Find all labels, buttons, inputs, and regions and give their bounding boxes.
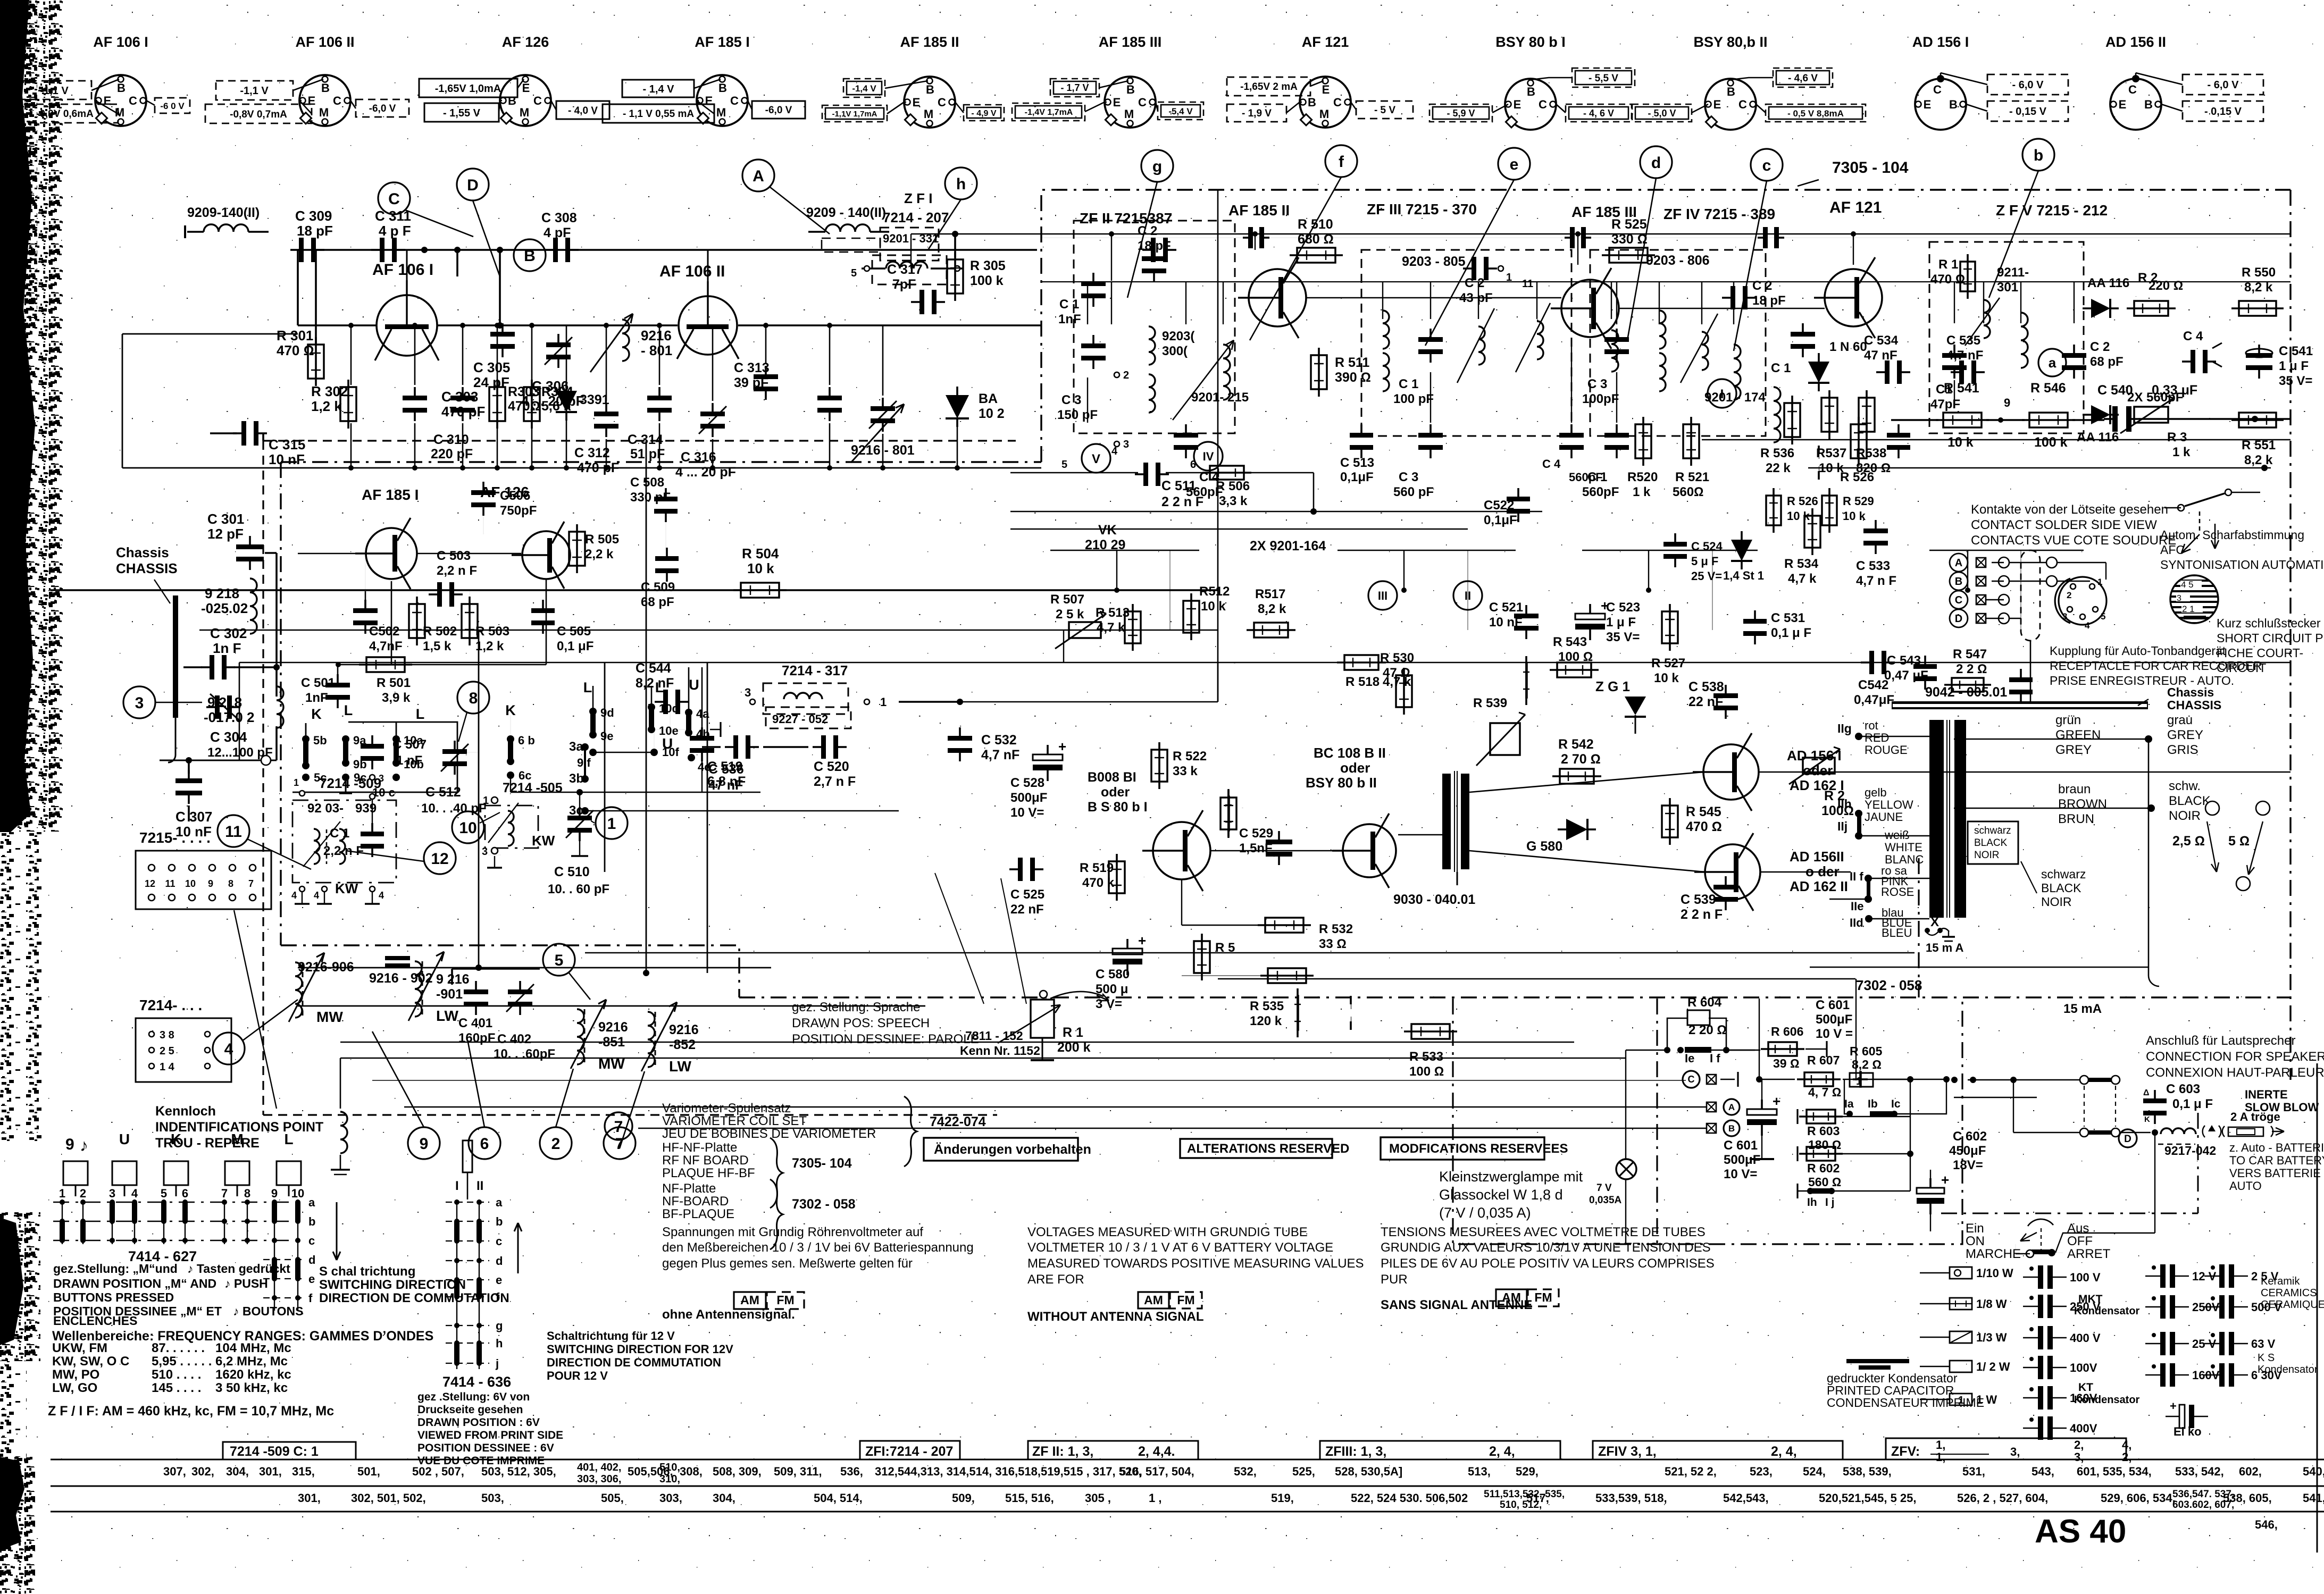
svg-text:63 V: 63 V [2251,1337,2276,1350]
svg-text:C 1: C 1 [1587,470,1607,484]
svg-text:b: b [2034,147,2043,164]
svg-text:R 519: R 519 [1242,808,1243,809]
svg-text:-1,65V 1,0mA: -1,65V 1,0mA [435,83,501,95]
svg-text:503,: 503, [481,1491,504,1505]
svg-text:R 1: R 1 [1938,257,1958,272]
svg-text:10: 10 [291,1187,304,1200]
svg-text:1620 kHz, kc: 1620 kHz, kc [215,1368,291,1382]
svg-text:400 V: 400 V [2070,1331,2101,1345]
svg-text:9203 - 805: 9203 - 805 [1402,254,1466,269]
svg-text:SHORT CIRCUIT PLUG: SHORT CIRCUIT PLUG [2217,631,2324,645]
svg-text:- 1,9 V: - 1,9 V [1242,108,1272,119]
svg-text:1 k: 1 k [1633,485,1651,499]
svg-text:4: 4 [1111,446,1118,457]
svg-text:AD 156 II: AD 156 II [2105,34,2166,50]
svg-text:Ein: Ein [1966,1221,1984,1236]
svg-text:C 521: C 521 [1489,600,1523,615]
svg-text:R 606: R 606 [1771,1025,1803,1038]
svg-text:C 524: C 524 [1691,540,1723,553]
svg-text:33 Ω: 33 Ω [1319,937,1347,951]
svg-text:CONNEXION HAUT-PARLEUR: CONNEXION HAUT-PARLEUR [2146,1066,2324,1080]
svg-text:39 Ω: 39 Ω [1773,1056,1800,1070]
svg-text:NOIR: NOIR [1974,850,2000,861]
svg-text:L: L [416,706,425,722]
svg-text:M: M [924,107,933,121]
svg-text:C 539: C 539 [1681,892,1716,907]
svg-text:g: g [496,1319,503,1332]
svg-text:2 1: 2 1 [2182,604,2195,614]
svg-text:I j: I j [1825,1196,1835,1209]
svg-text:-1,1 V: -1,1 V [40,85,69,97]
svg-text:S chal trichtung: S chal trichtung [319,1264,415,1279]
svg-text:7215- . . . .: 7215- . . . . [139,829,211,846]
svg-text:7302 - 058: 7302 - 058 [792,1197,856,1212]
svg-text:ENCLENCHES: ENCLENCHES [53,1314,137,1328]
svg-text:MW: MW [316,1009,343,1025]
svg-text:C: C [730,94,739,107]
svg-text:220 pF: 220 pF [431,447,473,462]
svg-text:25 V=: 25 V= [1691,569,1722,583]
svg-text:2 70 Ω: 2 70 Ω [1561,752,1601,767]
svg-text:120 k: 120 k [1250,1014,1282,1028]
svg-text:3 50 kHz, kc: 3 50 kHz, kc [215,1381,288,1395]
svg-text:2,5 Ω: 2,5 Ω [2172,834,2205,849]
svg-text:Glassockel W 1,8 d: Glassockel W 1,8 d [1439,1187,1563,1203]
svg-text:87. . . . . .: 87. . . . . . [152,1341,205,1355]
svg-text:C 603: C 603 [2166,1082,2200,1096]
svg-text:KW: KW [532,833,555,849]
svg-text:R 541: R 541 [1944,381,1979,396]
svg-text:AS 40: AS 40 [2035,1513,2126,1550]
svg-text:C 305: C 305 [473,359,510,375]
svg-text:+: + [2170,1399,2177,1413]
svg-text:grau: grau [2167,713,2193,727]
svg-text:POSITION DESSINEE: PAROLE: POSITION DESSINEE: PAROLE [792,1032,979,1046]
svg-text:7: 7 [614,1118,623,1136]
svg-text:Schaltrichtung für 12 V: Schaltrichtung für 12 V [547,1329,675,1343]
svg-text:- 6,0 V: - 6,0 V [2012,79,2044,91]
svg-text:GRUNDIG AUX VALEURS 10/3/1V: GRUNDIG AUX VALEURS 10/3/1V A UNE TENSIO… [1381,1240,1711,1255]
svg-text:M: M [319,106,329,119]
svg-text:z. Auto - BATTERIE: z. Auto - BATTERIE [2229,1141,2324,1154]
svg-text:I f: I f [1710,1052,1720,1065]
svg-text:C 511: C 511 [1161,479,1196,493]
svg-text:b: b [496,1215,503,1228]
svg-text:602,: 602, [2239,1465,2262,1478]
svg-text:501,: 501, [357,1465,380,1478]
svg-text:3,: 3, [2010,1445,2020,1458]
svg-text:9209 - 140(II): 9209 - 140(II) [806,205,886,220]
svg-text:h: h [496,1337,503,1350]
svg-text:INERTE: INERTE [2245,1088,2288,1101]
svg-text:ARRET: ARRET [2067,1247,2111,1261]
svg-text:4: 4 [314,890,319,901]
svg-text:526, 2 , 527, 604,: 526, 2 , 527, 604, [1957,1491,2048,1505]
svg-text:El ko: El ko [2173,1425,2202,1438]
svg-text:2: 2 [80,1187,86,1200]
svg-text:VERS BATTERIE: VERS BATTERIE [2229,1167,2321,1180]
svg-text:9216: 9216 [641,328,672,343]
svg-text:0,1μF: 0,1μF [1340,470,1374,484]
svg-text:R 525: R 525 [1611,217,1647,232]
svg-text:h: h [956,175,966,193]
svg-text:C 310: C 310 [433,432,469,447]
svg-text:B: B [718,81,727,95]
svg-text:AF 185 I: AF 185 I [695,34,750,50]
svg-text:10. . 60 pF: 10. . 60 pF [548,882,609,896]
svg-text:Z F V 7215 - 212: Z F V 7215 - 212 [1996,202,2108,219]
svg-text:7: 7 [248,878,254,889]
svg-text:ALTERATIONS RESERVED: ALTERATIONS RESERVED [1187,1142,1349,1156]
svg-text:220 Ω: 220 Ω [2149,279,2183,293]
svg-text:Δ: Δ [2143,1088,2150,1097]
svg-text:AF 121: AF 121 [1302,34,1349,50]
svg-text:7214 - 207: 7214 - 207 [883,209,949,225]
svg-text:PUR: PUR [1381,1272,1408,1287]
svg-text:R 539: R 539 [1473,696,1507,710]
svg-text:VIEWED FROM PRINT SIDE: VIEWED FROM PRINT SIDE [417,1429,563,1441]
svg-text:1,2 k: 1,2 k [475,639,504,653]
svg-text:ohne Antennensignal.: ohne Antennensignal. [662,1307,795,1322]
svg-text:C 531: C 531 [1771,611,1805,625]
svg-text:68 pF: 68 pF [2090,355,2124,369]
svg-text:7414 - 636: 7414 - 636 [442,1374,511,1390]
svg-text:528, 530,5A]: 528, 530,5A] [1335,1465,1402,1478]
svg-text:MODFICATIONS RESERVEES: MODFICATIONS RESERVEES [1389,1142,1568,1156]
svg-text:8: 8 [228,878,233,889]
svg-text:1: 1 [607,815,616,833]
svg-text:C 302: C 302 [210,625,247,641]
svg-text:9: 9 [271,1187,278,1200]
svg-text:450μF: 450μF [1949,1144,1986,1158]
svg-text:1: 1 [880,695,887,709]
svg-text:Ib: Ib [1868,1098,1878,1110]
svg-text:RF NF BOARD: RF NF BOARD [662,1153,749,1168]
svg-text:560Ω: 560Ω [1673,485,1703,499]
svg-text:R 534: R 534 [1784,557,1819,571]
svg-text:5: 5 [851,267,857,279]
svg-text:II: II [476,1179,483,1193]
svg-text:R 533: R 533 [1409,1050,1443,1064]
svg-text:0,035A: 0,035A [1589,1195,1622,1206]
svg-text:E: E [1924,98,1932,111]
svg-text:4 5: 4 5 [2181,580,2194,590]
svg-text:schwarz: schwarz [1974,825,2011,836]
svg-text:POUR 12 V: POUR 12 V [547,1369,608,1382]
svg-text:f: f [1339,153,1344,171]
svg-text:1,: 1, [1936,1450,1945,1464]
svg-text:301,: 301, [259,1465,282,1478]
svg-text:C 601: C 601 [1816,998,1850,1012]
svg-text:2,7 n F: 2,7 n F [814,774,856,789]
svg-text:C 2: C 2 [1465,276,1484,290]
svg-text:533,539, 518,: 533,539, 518, [1595,1491,1667,1505]
svg-text:ROUGE: ROUGE [1865,743,1908,757]
svg-text:4: 4 [2085,620,2090,631]
svg-text:3,9 k: 3,9 k [382,691,411,705]
svg-text:519,: 519, [1271,1491,1294,1505]
svg-text:GREY: GREY [2167,728,2203,742]
svg-text:2,2 n F: 2,2 n F [323,844,364,858]
svg-text:Keramik: Keramik [2261,1276,2300,1287]
svg-text:2,: 2, [2074,1438,2084,1452]
svg-text:e: e [496,1273,502,1287]
svg-text:Anschluß für Lautsprecher: Anschluß für Lautsprecher [2146,1034,2295,1048]
svg-text:2: 2 [551,1135,561,1153]
svg-text:4 p F: 4 p F [379,223,411,239]
svg-text:Autom. Scharfabstimmung: Autom. Scharfabstimmung [2160,528,2304,542]
svg-text:AA 116: AA 116 [2087,276,2129,290]
svg-text:1 N 60: 1 N 60 [1808,393,1810,394]
svg-text:II: II [1465,589,1471,602]
svg-text:1/10 W: 1/10 W [1976,1266,2013,1280]
svg-text:2 2 n F: 2 2 n F [1161,494,1203,509]
svg-text:4,: 4, [2122,1438,2131,1452]
svg-text:Kurz schlußstecker: Kurz schlußstecker [2217,616,2321,630]
svg-text:18 pF: 18 pF [297,223,333,239]
svg-text:oder: oder [1340,760,1370,776]
svg-text:3: 3 [1123,439,1129,450]
svg-text:AF 121: AF 121 [1829,199,1882,216]
svg-text:AD 156 I: AD 156 I [1787,748,1842,764]
svg-text:7: 7 [221,1187,228,1200]
svg-text:8,2 k: 8,2 k [2244,453,2273,467]
svg-text:9201- 215: 9201- 215 [1191,390,1249,405]
svg-text:302,: 302, [191,1465,214,1478]
svg-text:C 513: C 513 [1340,456,1374,470]
svg-text:303, 306,: 303, 306, [577,1473,621,1485]
svg-text:8: 8 [469,690,478,707]
svg-text:DRAWN POSITION „M“ AND: DRAWN POSITION „M“ AND [53,1277,216,1290]
svg-text:312,544,313, 314,514, 316,518,: 312,544,313, 314,514, 316,518,519,515 , … [875,1465,1142,1478]
svg-text:Ia: Ia [1844,1098,1854,1110]
svg-text:300(: 300( [1162,344,1188,358]
svg-text:10: 10 [185,878,196,889]
svg-text:BLACK: BLACK [1974,837,2008,849]
svg-text:R 301: R 301 [277,328,313,343]
svg-text:C 533: C 533 [1856,559,1890,573]
svg-text:E: E [1514,98,1522,111]
svg-text:500μF: 500μF [1724,1153,1760,1167]
svg-text:E: E [1113,96,1121,109]
svg-text:7214 - 317: 7214 - 317 [782,662,848,678]
svg-text:8,2 Ω: 8,2 Ω [1852,1058,1882,1071]
svg-text:2, 4,: 2, 4, [1771,1444,1797,1459]
svg-text:C 2: C 2 [1138,224,1157,238]
svg-text:6,2 MHz, Mc: 6,2 MHz, Mc [215,1354,288,1369]
svg-text:C 2: C 2 [2090,340,2110,354]
svg-text:DRAWN POS: SPEECH: DRAWN POS: SPEECH [792,1016,930,1030]
svg-text:11: 11 [1522,278,1533,290]
svg-text:9216 - 902: 9216 - 902 [369,971,433,986]
svg-text:7pF: 7pF [892,277,916,292]
svg-text:R 530: R 530 [1380,651,1414,665]
svg-text:302, 501, 502,: 302, 501, 502, [351,1491,426,1505]
svg-text:500μF: 500μF [1816,1012,1852,1027]
svg-text:470 Ω: 470 Ω [277,342,314,358]
svg-text:TENSIONS MESUREES AVEC VOLT: TENSIONS MESUREES AVEC VOLTMETRE DE TUBE… [1381,1225,1706,1239]
svg-text:9: 9 [208,878,213,889]
svg-text:R 3: R 3 [2167,430,2187,444]
svg-text:C 540: C 540 [2097,383,2133,398]
svg-text:9042 - 005.01: 9042 - 005.01 [1925,685,2007,700]
svg-text:C 3: C 3 [1399,470,1418,484]
svg-text:- 5 V: - 5 V [1374,105,1395,116]
svg-text:b: b [308,1215,315,1228]
svg-text:100 k: 100 k [970,273,1004,288]
svg-text:2 2 Ω: 2 2 Ω [1956,662,1987,676]
svg-text:R 506: R 506 [1216,479,1250,493]
svg-text:C: C [1333,96,1342,109]
svg-text:VOLTAGES MEASURED WITH GRUN: VOLTAGES MEASURED WITH GRUNDIG TUBE [1027,1225,1308,1239]
svg-text:C 503: C 503 [437,549,471,563]
svg-text:C 580: C 580 [1096,967,1130,981]
svg-text:PILES DE 6V AU POLE POSI: PILES DE 6V AU POLE POSITIV VA LEURS COM… [1381,1256,1715,1271]
svg-text:B: B [1728,1123,1735,1134]
svg-text:12: 12 [145,878,155,889]
svg-text:f: f [308,1291,313,1305]
svg-text:546,: 546, [2255,1518,2278,1531]
svg-text:FM: FM [776,1293,794,1307]
svg-text:R 1: R 1 [1063,1025,1083,1040]
svg-text:+: + [1941,1172,1949,1188]
svg-text:CONTACTS VUE COTE SOUDURE: CONTACTS VUE COTE SOUDURE [1971,533,2176,548]
svg-text:R 605: R 605 [1850,1044,1883,1058]
svg-text:- 4,6 V: - 4,6 V [1788,73,1818,84]
svg-text:A: A [1955,557,1962,569]
svg-text:AF 106 II: AF 106 II [295,34,354,50]
svg-text:C 525: C 525 [1010,887,1044,902]
svg-text:560pF: 560pF [1582,485,1619,499]
svg-text:-0,8V 0,7mA: -0,8V 0,7mA [230,109,287,120]
svg-text:Kontakte von der Lötseite gese: Kontakte von der Lötseite gesehen [1971,502,2168,517]
svg-text:R 527: R 527 [1651,656,1685,670]
svg-text:C 402: C 402 [497,1032,531,1046]
svg-text:6: 6 [480,1135,489,1153]
svg-text:C: C [129,94,137,107]
svg-text:B: B [1949,98,1958,111]
svg-text:C: C [333,94,341,107]
svg-text:7214 -505: 7214 -505 [503,781,563,795]
svg-text:100 Ω: 100 Ω [1409,1064,1444,1079]
svg-text:B S 80 b I: B S 80 b I [1088,800,1148,815]
svg-text:FM: FM [1534,1290,1552,1304]
svg-text:5: 5 [1061,459,1067,471]
svg-text:2 20 Ω: 2 20 Ω [1688,1023,1727,1037]
svg-text:C 317: C 317 [887,262,923,277]
svg-text:R 542: R 542 [1558,737,1594,752]
svg-text:d: d [308,1253,315,1266]
svg-text:4,7 nF: 4,7 nF [981,748,1019,762]
svg-text:9 218: 9 218 [205,585,239,601]
svg-text:MKT: MKT [2078,1293,2103,1305]
svg-text:524,: 524, [1803,1465,1826,1478]
svg-text:1,: 1, [1936,1438,1945,1452]
svg-text:AUTO: AUTO [2229,1179,2262,1193]
svg-text:508, 309,: 508, 309, [713,1465,762,1478]
svg-text:II f: II f [1850,870,1863,883]
svg-text:7 V: 7 V [1596,1182,1612,1194]
svg-text:R 550: R 550 [2242,265,2276,280]
svg-text:c: c [308,1234,315,1247]
svg-text:10 k: 10 k [747,560,774,576]
svg-text:e: e [1510,156,1519,173]
svg-text:B: B [1727,85,1735,98]
svg-text:1nF: 1nF [305,691,328,705]
svg-text:BUTTONS PRESSED: BUTTONS PRESSED [53,1290,174,1304]
svg-text:305 ,: 305 , [1085,1491,1111,1505]
svg-text:10. . .60pF: 10. . .60pF [494,1047,555,1061]
svg-text:R 518: R 518 [1234,663,1235,664]
svg-text:532,: 532, [1234,1465,1257,1478]
svg-text:4,7 k: 4,7 k [1788,572,1817,586]
svg-text:R 545: R 545 [1686,804,1721,819]
svg-text:C 508: C 508 [630,475,664,490]
svg-text:CHASSIS: CHASSIS [116,560,178,576]
svg-text:AF 106 I: AF 106 I [93,34,148,50]
svg-text:2, 4,4.: 2, 4,4. [1138,1444,1175,1459]
svg-text:- 0,15 V: - 0,15 V [2204,106,2242,118]
svg-text:Chassis: Chassis [116,544,169,560]
svg-text:C 3: C 3 [1587,377,1607,391]
svg-text:R 501: R 501 [377,676,411,690]
svg-text:9216: 9216 [598,1020,628,1035]
svg-text:NF-Platte: NF-Platte [662,1181,716,1196]
svg-text:33 k: 33 k [1173,764,1198,778]
svg-text:9217-042: 9217-042 [2164,1144,2216,1157]
svg-text:C: C [2128,83,2137,96]
svg-text:2,: 2, [2122,1450,2131,1464]
svg-text:500Ω: 500Ω [1473,722,1475,723]
svg-text:601, 535, 534,: 601, 535, 534, [2077,1465,2152,1478]
svg-text:R 536: R 536 [1760,446,1794,460]
svg-text:Druckseite gesehen: Druckseite gesehen [417,1404,523,1416]
svg-text:C 519: C 519 [707,759,743,774]
svg-text:307,: 307, [163,1465,186,1478]
svg-text:Kenn Nr. 1152: Kenn Nr. 1152 [960,1044,1040,1058]
svg-text:3 V=: 3 V= [1096,997,1122,1011]
svg-text:Kupplung für Auto-Tonbandgerä: Kupplung für Auto-Tonbandgerät [2050,644,2226,658]
svg-text:E: E [1713,98,1721,111]
svg-text:j: j [495,1357,499,1370]
svg-text:MW, PO: MW, PO [52,1368,99,1382]
svg-text:303,: 303, [659,1491,682,1505]
svg-text:510 . . . .: 510 . . . . [152,1368,201,1382]
svg-text:L: L [583,679,592,695]
svg-text:R 604: R 604 [1687,995,1722,1010]
svg-text:C: C [1955,594,1962,606]
svg-text:9d: 9d [600,706,614,719]
svg-text:3,: 3, [2074,1450,2084,1464]
svg-text:10 2: 10 2 [979,406,1005,421]
svg-text:R 503: R 503 [475,624,509,639]
svg-text:304,: 304, [226,1465,249,1478]
svg-text:9: 9 [420,1135,429,1153]
svg-text:-1,1 V: -1,1 V [240,85,269,97]
svg-text:22 k: 22 k [1766,461,1791,475]
svg-text:100 V: 100 V [2070,1271,2101,1284]
svg-text:-901: -901 [436,987,463,1002]
svg-text:92 03-: 92 03- [307,801,344,816]
svg-text:M: M [1319,107,1329,121]
svg-text:a: a [496,1196,503,1209]
svg-text:47 nF: 47 nF [1864,348,1897,363]
svg-text:AD 156II: AD 156II [1790,849,1844,865]
svg-text:g: g [1152,158,1162,175]
svg-text:C 501: C 501 [301,676,335,690]
svg-text:2,2 k: 2,2 k [585,547,614,561]
svg-text:10 k: 10 k [1787,509,1810,523]
